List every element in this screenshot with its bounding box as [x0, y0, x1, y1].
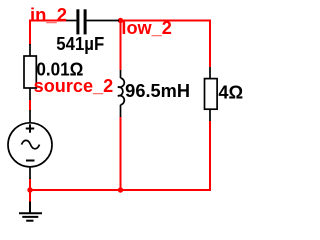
svg-text:low_2: low_2 [121, 18, 171, 38]
svg-text:541µF: 541µF [56, 34, 104, 54]
svg-text:96.5mH: 96.5mH [125, 81, 190, 101]
ground symbol [19, 202, 42, 221]
wire bottom rail [30, 189, 211, 191]
inductor L2 96.5mH [118, 70, 124, 117]
wire right vertical lower [209, 121, 211, 191]
wire top-right horizontal [119, 20, 211, 22]
svg-text:4Ω: 4Ω [218, 83, 243, 103]
junction node bottom left [27, 187, 32, 192]
resistor R2 4 ohm [205, 67, 218, 121]
ac source V2 [8, 110, 52, 179]
junction node low_2 top [118, 18, 123, 23]
resistor R1 0.01 ohm [24, 44, 36, 100]
wire left vertical upper [29, 20, 31, 46]
wire middle vertical lower [120, 117, 122, 191]
plus sign [26, 128, 34, 130]
wire top-left horizontal [29, 20, 66, 22]
wire right vertical upper [209, 20, 211, 68]
capacitor C2 541uF [66, 9, 119, 34]
wire middle vertical upper [120, 21, 122, 71]
wire left vertical lower [29, 179, 31, 203]
sine symbol [22, 140, 40, 148]
svg-text:source_2: source_2 [34, 76, 114, 96]
wire left vertical mid [29, 100, 31, 111]
junction node bottom middle [118, 187, 123, 192]
svg-text:in_2: in_2 [30, 5, 67, 25]
minus sign [26, 160, 35, 162]
